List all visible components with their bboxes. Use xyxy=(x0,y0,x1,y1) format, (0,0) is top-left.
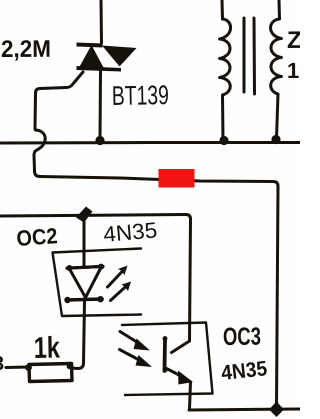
svg-text:OC3: OC3 xyxy=(223,323,261,351)
svg-text:4N35: 4N35 xyxy=(102,217,158,247)
svg-text:BT139: BT139 xyxy=(112,80,170,111)
svg-text:OC2: OC2 xyxy=(16,223,59,251)
svg-text:Z: Z xyxy=(287,27,300,54)
svg-text:3: 3 xyxy=(0,353,4,375)
svg-text:10: 10 xyxy=(287,58,300,83)
svg-text:2,2M: 2,2M xyxy=(1,36,51,63)
svg-text:1k: 1k xyxy=(34,332,61,365)
svg-text:4N35: 4N35 xyxy=(220,357,268,385)
